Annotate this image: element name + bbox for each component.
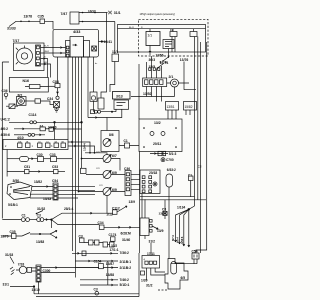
wires 7/17 to 4/33 (41, 48, 66, 78)
svg-text:31/1: 31/1 (114, 11, 121, 15)
svg-text:11/1: 11/1 (112, 50, 118, 54)
dashes bottom (158, 289, 167, 291)
svg-text:C3: C3 (38, 142, 40, 144)
svg-text:2/11B:2: 2/11B:2 (120, 266, 132, 270)
motor 6/7 (103, 155, 111, 163)
svg-text:5/1B:1: 5/1B:1 (8, 203, 18, 207)
svg-text:20/18: 20/18 (149, 171, 157, 175)
svg-text:BL-R: BL-R (129, 27, 134, 29)
svg-text:C53: C53 (52, 165, 58, 169)
pins below units (168, 110, 190, 119)
module 4/33 right pin strip (84, 41, 90, 58)
svg-text:4/6:2: 4/6:2 (1, 127, 9, 131)
svg-text:28/1:4: 28/1:4 (64, 207, 74, 211)
wire N16 to C84 (48, 85, 55, 87)
svg-text:31/1: 31/1 (3, 283, 10, 287)
svg-text:8/7:2: 8/7:2 (171, 235, 175, 241)
svg-text:4/58:6: 4/58:6 (180, 236, 184, 244)
svg-text:20/11: 20/11 (153, 142, 161, 146)
relay small left (81, 168, 87, 173)
svg-text:4/30:6: 4/30:6 (1, 133, 11, 137)
svg-text:C51: C51 (24, 165, 30, 169)
svg-text:13/83: 13/83 (36, 240, 44, 244)
svg-text:13/2: 13/2 (154, 121, 161, 125)
wires C300 right (41, 267, 99, 273)
svg-text:C36: C36 (2, 89, 8, 93)
drops to units (150, 29, 194, 32)
svg-text:31/33: 31/33 (7, 27, 16, 31)
drops below units (149, 46, 169, 59)
switch feeds down to strip (147, 56, 162, 78)
svg-text:U41:2: U41:2 (1, 118, 10, 122)
vertical drop from 4/33 to C84 (57, 57, 59, 84)
svg-text:C74: C74 (96, 168, 99, 170)
left rail wire (2, 62, 9, 219)
wire drop to sensor box (93, 57, 95, 92)
junction dots on switch wire (20, 21, 30, 23)
antenna unit (166, 174, 173, 187)
row 2/11B:1 (75, 260, 118, 262)
svg-text:C1: C1 (22, 213, 26, 217)
svg-text:C54: C54 (52, 179, 58, 183)
svg-text:5/1:3: 5/1:3 (169, 152, 177, 156)
svg-text:6/5: 6/5 (181, 276, 186, 280)
svg-text:13/41: 13/41 (104, 40, 113, 44)
svg-text:13/33: 13/33 (43, 197, 51, 201)
svg-text:C3: C3 (94, 288, 98, 292)
wires lock to C54 (30, 186, 53, 199)
module 4/33 inner unit (70, 37, 84, 58)
wire drop to switch box (87, 57, 89, 118)
svg-text:13/78: 13/78 (24, 15, 33, 19)
svg-text:13/52: 13/52 (143, 92, 152, 96)
wire C35 to module 4/33 (45, 21, 54, 29)
svg-text:31/2: 31/2 (149, 240, 156, 244)
svg-text:C33: C33 (50, 153, 56, 157)
junction row above motors (68, 141, 90, 153)
svg-text:C74: C74 (99, 185, 102, 187)
row 5/1D:1 (80, 284, 118, 286)
svg-text:7/18: 7/18 (18, 262, 25, 266)
row 7/36:2 (72, 252, 118, 254)
bottom connector boxes (89, 240, 94, 245)
unit 1/1 (146, 32, 160, 46)
svg-text:13/9: 13/9 (129, 200, 136, 204)
arrows inside 4/33 (73, 44, 77, 46)
svg-text:13/9: 13/9 (157, 229, 164, 233)
svg-text:4/33: 4/33 (73, 30, 80, 34)
svg-text:C1: C1 (124, 139, 128, 143)
wire row U41:2 (9, 121, 30, 123)
svg-text:1/High output system (accessor: 1/High output system (accessory) (140, 13, 176, 16)
svg-text:5/1D:1: 5/1D:1 (120, 283, 130, 287)
link vertical (107, 261, 109, 285)
svg-text:17/1:1: 17/1:1 (110, 248, 119, 252)
trunk verticals right (194, 37, 196, 207)
svg-text:C2: C2 (198, 165, 202, 169)
svg-text:6/28:M: 6/28:M (121, 231, 132, 235)
svg-text:13/76: 13/76 (180, 58, 189, 62)
svg-text:7/47: 7/47 (61, 12, 68, 16)
connector C2 b (190, 32, 197, 37)
wire row 4/6:2 with fuse 2A (14, 128, 40, 130)
svg-text:8/6: 8/6 (109, 133, 114, 137)
svg-text:13/56: 13/56 (156, 54, 164, 58)
node 5/1:3 (150, 153, 168, 155)
connector C35 (40, 19, 45, 24)
svg-text:15/82: 15/82 (185, 105, 193, 109)
main trunk wire down mid (101, 13, 107, 99)
svg-text:2/1: 2/1 (169, 75, 174, 79)
wire C84 down (57, 88, 59, 97)
bottom bus (34, 294, 139, 297)
svg-text:3/13: 3/13 (116, 94, 123, 98)
svg-text:13/10: 13/10 (88, 9, 96, 13)
svg-text:C3: C3 (37, 213, 41, 217)
svg-text:13/88: 13/88 (106, 273, 114, 277)
trunk verticals center (72, 57, 74, 251)
wire 11/1 box to 3/13 (110, 62, 115, 93)
svg-text:31/33: 31/33 (5, 253, 13, 257)
fuse inside N16 (29, 85, 40, 89)
svg-text:C3: C3 (162, 208, 166, 212)
motor 6/9 b (103, 188, 111, 196)
row y158 fuse and connectors C30 C33 (6, 150, 8, 177)
svg-text:2/11B:1: 2/11B:1 (120, 260, 132, 264)
svg-text:13/82: 13/82 (34, 180, 42, 184)
svg-text:13/79: 13/79 (1, 234, 9, 238)
svg-text:15/5: 15/5 (149, 65, 156, 69)
unit 15/82 (184, 102, 197, 111)
svg-text:GN-R: GN-R (44, 51, 50, 53)
connector C700 (161, 158, 165, 162)
svg-text:13/44: 13/44 (83, 143, 87, 151)
fuse small left (9, 104, 15, 109)
wires C54 to right (58, 186, 95, 198)
svg-text:C700: C700 (166, 158, 174, 162)
svg-text:6/33:2: 6/33:2 (167, 168, 176, 172)
svg-text:30/3: 30/3 (149, 58, 156, 62)
svg-text:7/17: 7/17 (13, 39, 20, 43)
svg-text:31/40: 31/40 (122, 238, 130, 242)
wire switch feed from 31/33 (9, 21, 40, 26)
svg-text:31/32: 31/32 (37, 207, 45, 211)
row 7/46:2 (80, 279, 118, 281)
motor 6/9 a (103, 171, 111, 179)
svg-text:13/10: 13/10 (32, 288, 40, 292)
feed to cluster 13/2 (138, 64, 140, 119)
switch under 31/32 (37, 211, 44, 214)
svg-text:1/1: 1/1 (148, 34, 153, 38)
7/17 terminal strip (36, 45, 41, 66)
relay 3/13 (113, 92, 131, 100)
wire from 7/47 pin 2 down to node 13/41 (79, 21, 115, 23)
svg-text:C35: C35 (38, 15, 44, 19)
svg-text:b-r: b-r (95, 62, 98, 65)
pump 8/6 (101, 131, 119, 152)
unit 13/51 (166, 102, 179, 111)
module 4/33 left pin strip (66, 41, 71, 58)
cluster 13/2 (139, 119, 182, 152)
crossing wires below (140, 197, 206, 200)
svg-text:N16: N16 (23, 79, 29, 83)
bus wire inside (118, 28, 206, 30)
sensor box with circle (90, 92, 97, 101)
pump 6/5 (165, 259, 188, 290)
svg-text:31/2: 31/2 (146, 284, 153, 288)
connector pair symbol on wire 13/10 (109, 11, 112, 14)
ground below suppressor (54, 108, 59, 113)
feeder small box (98, 98, 104, 109)
svg-text:6/7: 6/7 (112, 154, 117, 158)
node 13/41 (101, 40, 103, 42)
wire 8/2 to connector (25, 100, 36, 102)
connector pair below C84 (56, 96, 59, 99)
svg-text:4/9:4: 4/9:4 (176, 237, 180, 243)
wire row to pump feed (88, 117, 107, 119)
connector row below sensor (93, 101, 95, 111)
svg-text:C34: C34 (47, 97, 53, 101)
svg-text:13/87: 13/87 (106, 262, 114, 266)
svg-text:C4: C4 (46, 142, 48, 144)
module 4/33 connector (92, 46, 97, 51)
svg-text:C30: C30 (37, 153, 43, 157)
svg-text:2/13: 2/13 (107, 213, 113, 217)
svg-text:C114: C114 (29, 113, 37, 117)
amplifier outer box (118, 25, 206, 53)
unit 20/18 (140, 170, 160, 194)
svg-text:24/74: 24/74 (160, 61, 169, 65)
connector strip below switch (149, 68, 151, 71)
row 2/11B:2 (75, 267, 118, 269)
dashed accessory box (139, 19, 209, 56)
svg-text:1/134: 1/134 (177, 205, 185, 209)
node 1/39 (141, 271, 145, 275)
svg-text:C34: C34 (98, 221, 104, 225)
svg-text:BL-R: BL-R (44, 46, 49, 48)
connector C300 (36, 265, 41, 282)
svg-text:C74: C74 (96, 152, 99, 154)
unit bottom right box (140, 218, 149, 236)
relay unit inside accessory box (163, 40, 174, 49)
svg-text:7/46:2: 7/46:2 (120, 278, 130, 282)
suppressor box (54, 102, 60, 108)
svg-text:13/51: 13/51 (167, 105, 175, 109)
vertical from node to strip 4/10 (54, 122, 56, 139)
wire row 4/30:6 (14, 134, 28, 136)
wire 13/10 from 7/47 pin 1 (79, 12, 108, 14)
svg-text:7/36:2: 7/36:2 (120, 251, 130, 255)
